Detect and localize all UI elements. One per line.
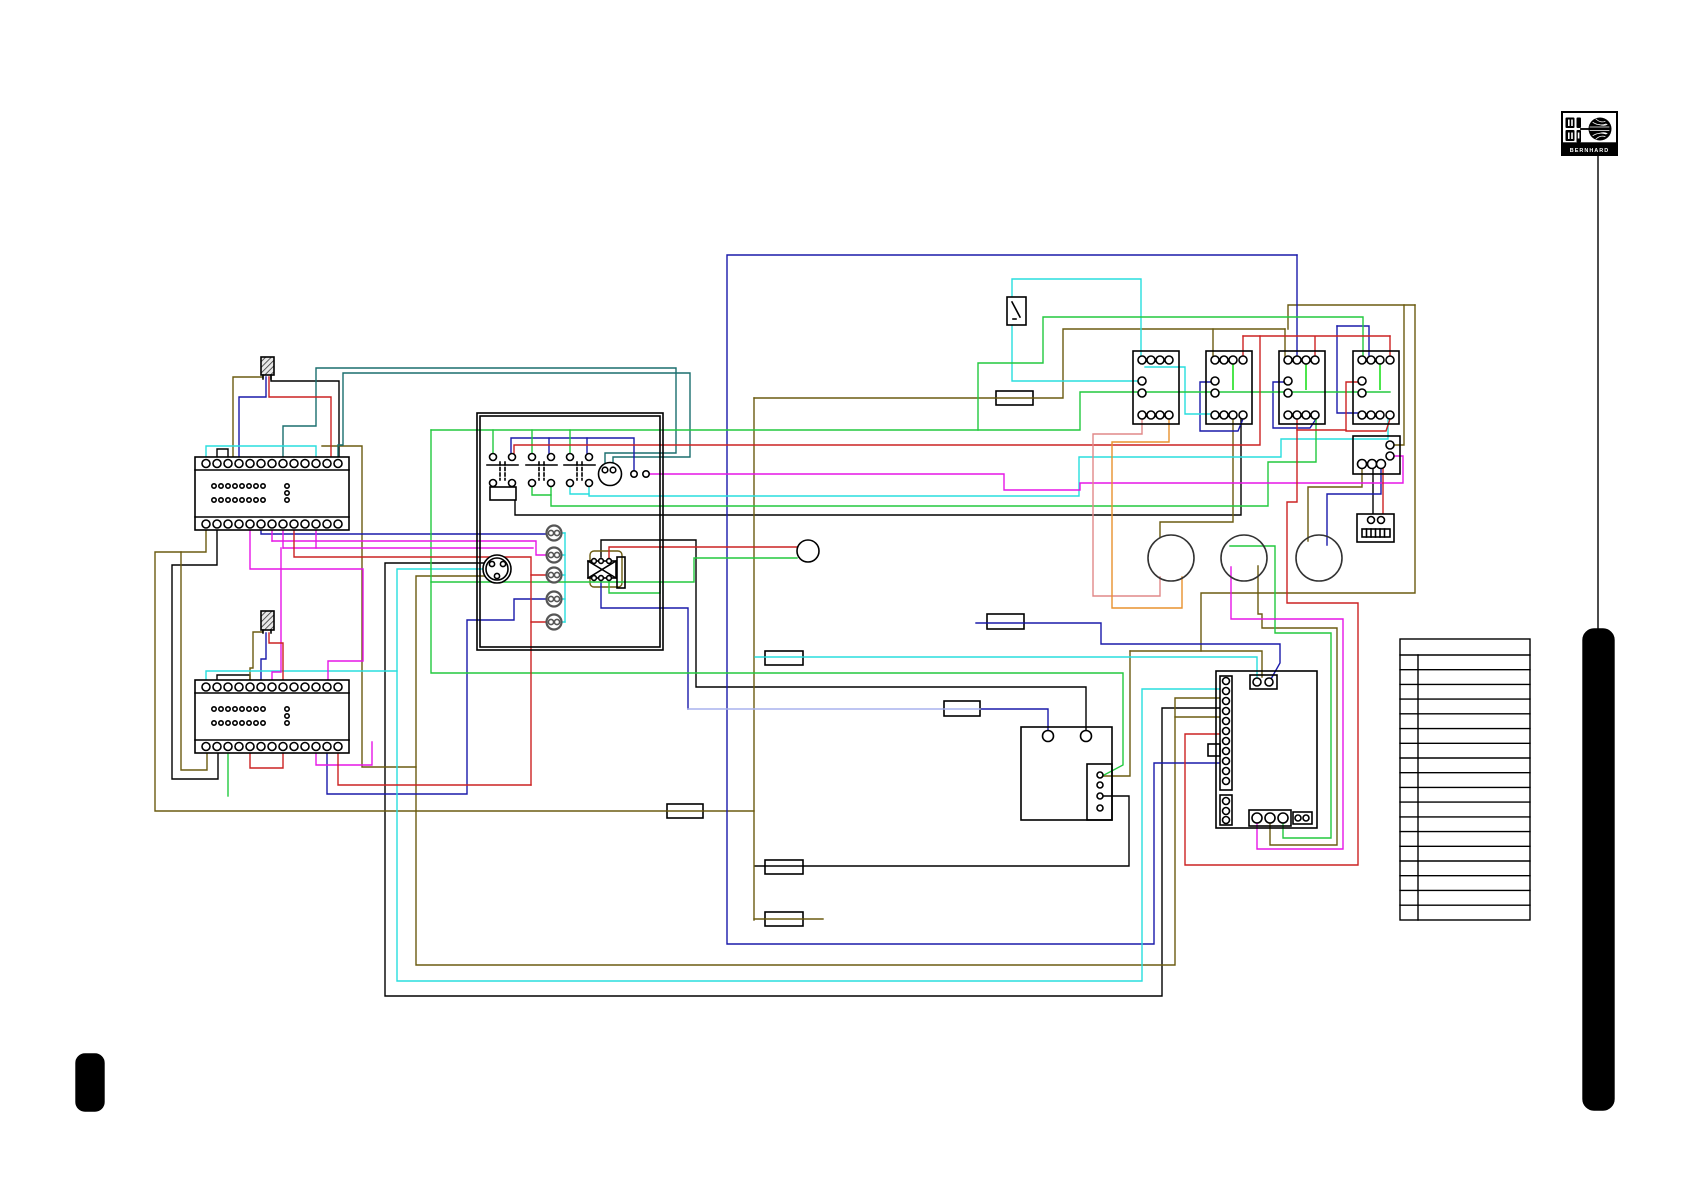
wire green circle M2 to strip A1 bottom circle3	[1230, 546, 1331, 838]
wire relay K2 internal stub	[1232, 364, 1234, 389]
wire cyan switch Q1 bottom to relay K1 L1	[1012, 325, 1138, 381]
wire valve Y1 black to box A2 circle2	[601, 540, 1086, 731]
wire X1 pin6 to lamp H1	[261, 529, 546, 534]
wire salmon relay K1 B1 to motor circle M1	[1093, 419, 1160, 596]
wire X2 pin12 to lamp H4	[327, 599, 546, 794]
wire fuse F3 through-line	[765, 656, 803, 658]
wire red drop K3 T4	[1314, 337, 1316, 356]
enclosure box A3	[477, 413, 663, 650]
wire green left branch down to box A2	[431, 430, 1123, 775]
wire red small block S2 pin3 to DIP S3 pin2	[1382, 466, 1384, 516]
wire red stub lamp H3	[531, 574, 546, 576]
wire blue after fuse F4 into box A2	[980, 709, 1048, 731]
wire green valve Y1 drop to branch	[609, 577, 660, 593]
wire red drop K4 T4	[1389, 336, 1391, 356]
wire orange relay K1 B2 to motor circle M1	[1112, 419, 1182, 608]
side bar	[1583, 629, 1614, 1110]
wire brown stub fuse F7	[754, 918, 823, 920]
contactor S3	[564, 454, 595, 487]
wire connector XS1 black to terminal strip A1 pin4	[385, 563, 1219, 996]
wire brown fuse F1 run	[754, 329, 1285, 398]
wire connector XS1 cyan main net	[397, 569, 1219, 981]
wire pale blue fuse F4 feed	[688, 708, 944, 710]
fuse F3	[765, 651, 803, 665]
wire brown outer loop to strip A1 circle C1	[1201, 305, 1415, 677]
wire fuse F2 through-line	[987, 622, 1024, 624]
wire red big net K3 B2 to strip A1 pin6	[1185, 419, 1358, 865]
wire sensor B2 brown to X2 pin5	[250, 632, 262, 686]
lamp H5	[547, 615, 562, 630]
controller strip A1	[1208, 671, 1317, 828]
circle M0	[797, 540, 819, 562]
wire magenta run to lamp H2	[272, 541, 546, 555]
terminal block X2	[195, 680, 349, 753]
wire cyan switch Q1 top loop	[1012, 279, 1141, 356]
wire green long run to relay K3 B4	[551, 419, 1316, 506]
fuse F1	[996, 391, 1033, 405]
lamp H2	[547, 548, 562, 563]
wire sensor B1 black to X1 pin13	[271, 376, 339, 463]
box A2	[1021, 727, 1112, 820]
wire small block S2 pin3 to circle M3	[1327, 466, 1381, 545]
wire sensor B1 red to X1 pin12	[269, 377, 331, 463]
wire fuse F6 through-line	[765, 865, 803, 867]
SECTION:WIRES	[172, 376, 1373, 996]
wire valve Y1 red to circle M0	[609, 547, 797, 561]
wire X1 pin11 brown drop	[322, 446, 416, 767]
wire contact S2 green U	[532, 483, 551, 495]
wire blue main loop top	[727, 255, 1297, 944]
terminal block X1	[195, 457, 349, 530]
wire magenta circle P2 long run to small block S2	[649, 456, 1403, 490]
wire circle M2 brown loop to A1 bottom circle2	[1258, 566, 1337, 845]
wire fuse F1 through-line	[996, 397, 1033, 399]
motor circle M2	[1221, 535, 1267, 581]
wire red X2 pin13 to lamp H5	[338, 750, 531, 785]
wire blue drop to relay K3 pin T2	[1296, 255, 1298, 356]
wire connector XS1 brown to terminal strip A1 pins 3,5	[416, 576, 1219, 965]
wire brown drop to relay K3 pin T1	[1284, 329, 1286, 356]
wire brown fuse F5 to main vertical	[703, 810, 754, 812]
wire cyan fuse F3 to strip A1 circle C1	[755, 657, 1257, 677]
relay K3	[1279, 351, 1325, 424]
wire relay K3 T4 to relay K4 T2	[1337, 326, 1369, 356]
node P2 circles	[631, 471, 649, 477]
wire green riser to switch Q1 net and relay K4 T1	[978, 317, 1363, 430]
wire relay K4 internal stub	[1379, 364, 1381, 389]
relay K2	[1206, 351, 1252, 424]
wire cyan lamp stubs	[558, 533, 565, 622]
wire green drop contact S2	[531, 430, 533, 457]
wire brown inner loop to X2 pin1	[181, 552, 207, 770]
small block S2	[1353, 436, 1400, 474]
wire green stub X2 pin3	[227, 750, 229, 796]
hanger line	[1597, 155, 1599, 629]
wire sensor B1 brown to X1 pin3	[233, 377, 263, 463]
wire magenta X1 pin5 to X2 pin12	[250, 529, 363, 686]
wire sensor B2 blue to X2 pin6	[261, 633, 266, 686]
wire jumper X1 pins 2-3	[217, 449, 228, 463]
wire brown loop around valve Y1	[590, 551, 622, 587]
wire blue bus drop S2 contact	[548, 438, 550, 457]
wire small block S2 pin2 to DIP S3 pin1	[1372, 466, 1374, 516]
wire X1 pin1 brown loop to fuse F5	[155, 529, 667, 811]
wire teal X1 pin13 to motor P1	[338, 373, 690, 467]
motor P1	[599, 463, 622, 486]
wire teal X1 pin8 to motor P1	[283, 368, 676, 467]
motor circle M1	[1148, 535, 1194, 581]
wire magenta X2 pin11 loop	[316, 742, 372, 765]
wire red top run K2 T4 to K4 T4	[1243, 335, 1390, 337]
fuse F6	[765, 860, 803, 874]
wire brown run y651 left	[1130, 650, 1201, 652]
wire cyan jumper X1 pin1-pin11	[206, 446, 316, 463]
wire jumper X2 pins 2-5	[217, 675, 250, 687]
wire magenta drop to X2 pin7	[272, 548, 281, 686]
fuse F7	[765, 912, 803, 926]
wire fuse F6 line to box A2 circle3	[755, 796, 1129, 866]
wire magenta X1 pins 7,8,11 drops	[272, 529, 316, 548]
wire relay K2 loop L1-B4	[1200, 382, 1243, 431]
parts table	[1400, 639, 1530, 920]
wire brown branch strip A1 pin5	[1175, 716, 1219, 718]
wire red link to K3 drop	[1297, 429, 1346, 431]
connector XS1	[483, 555, 511, 583]
wire blue drop to relay K4 B1	[1337, 326, 1362, 419]
wire blue bus drop S3 contact	[586, 438, 588, 457]
lamp H4	[547, 592, 562, 607]
wire red X1 pin9 to lamp H3	[294, 529, 531, 785]
wire cyan branch to X2 pin1	[206, 671, 397, 686]
wire cyan long run to relay K4 B4	[589, 419, 1388, 496]
logo BERNHARD	[1562, 112, 1617, 155]
wire green drop contact S3	[569, 430, 571, 457]
wire relay K3 loop L1-B4	[1273, 382, 1316, 428]
wire fuse F4 through-line	[944, 708, 980, 710]
wire cyan lamp chain	[564, 533, 566, 622]
wire small block S2 pin1 to motor circle M3	[1308, 466, 1362, 541]
wire fuse F7 through-line	[765, 918, 803, 920]
page marker pill	[76, 1054, 104, 1111]
wire brown riser to top run	[1288, 305, 1415, 329]
wire relay K3 internal stub	[1305, 364, 1307, 389]
svg-text:BERNHARD: BERNHARD	[1570, 148, 1609, 154]
valve Y1	[588, 557, 625, 588]
wire brown drop to small block S2	[1395, 305, 1404, 445]
motor circle M3	[1296, 535, 1342, 581]
wire green branch to circle M0	[431, 558, 797, 582]
lamp H3	[547, 568, 562, 583]
wire X1 pin2 loop to X2 pin2	[172, 529, 218, 779]
wire coil K5 black bus to relay K2 pin B4	[515, 419, 1241, 515]
switch Q1	[1007, 297, 1026, 325]
fuse F4	[944, 701, 980, 716]
wire magenta second run	[283, 547, 533, 549]
wire relay K4 loop L1-B4	[1346, 382, 1390, 431]
fuse F2	[987, 614, 1024, 629]
wire brown branch to box A2 circle	[1104, 651, 1130, 776]
wire blue bus switch contacts	[511, 438, 634, 470]
wire brown drop to relay K2 pin T1	[1212, 329, 1214, 356]
wire contact S3 cyan U	[570, 483, 589, 494]
wire cyan relay K1 internal to K2 B1	[1145, 367, 1211, 414]
sensor B2	[261, 611, 274, 633]
wire fuse F2 line to strip A1 top circle2	[976, 623, 1280, 679]
SECTION:COMPONENTS	[195, 297, 1400, 926]
contactor S2	[526, 454, 557, 487]
wire relay K2 pin B3 to motor circle M1	[1160, 419, 1233, 537]
relay K4	[1353, 351, 1399, 424]
wire magenta circle M2 to strip A1 bottom circle1	[1231, 567, 1343, 849]
DIP module S3	[1357, 514, 1394, 542]
sensor B1	[261, 357, 274, 379]
wire green main run through box A3 to relay row	[431, 392, 1390, 430]
contactor S1	[487, 454, 518, 487]
wire brown main vertical with fuse F1	[753, 398, 755, 920]
wire sensor B1 blue to X1 pin4	[239, 377, 266, 463]
coil K5	[490, 487, 516, 500]
wire valve Y1 blue to fuse F4 to box A2 circle1	[601, 577, 688, 709]
wire red bus contacts to relays K2,K4	[514, 336, 1260, 457]
relay K1	[1133, 351, 1179, 424]
wire red stub lamp H5	[531, 621, 546, 623]
fuse F5	[667, 804, 703, 818]
wire fuse F5 through-line	[667, 810, 703, 812]
lamp H1	[547, 526, 562, 541]
wire sensor B2 red to X2 pin7	[269, 633, 283, 686]
SECTION:DECOR	[76, 112, 1617, 1111]
wire green drop contact S1	[492, 430, 494, 457]
wire red X2 jumper B4-B10	[250, 750, 283, 768]
wire red drop K2 T4	[1242, 336, 1244, 356]
